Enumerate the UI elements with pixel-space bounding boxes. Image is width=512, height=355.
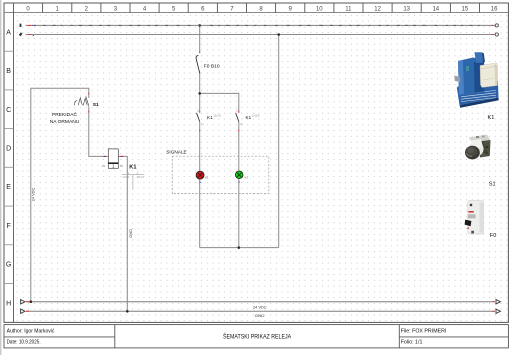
svg-text:File: FOX PRIMERI: File: FOX PRIMERI: [401, 328, 447, 334]
svg-text:E: E: [6, 184, 11, 191]
svg-text:F0 B10: F0 B10: [204, 64, 220, 70]
svg-text:F: F: [6, 223, 10, 230]
svg-text:10: 10: [316, 6, 323, 12]
svg-text:12: 12: [374, 6, 381, 12]
svg-text:S1: S1: [93, 102, 99, 108]
svg-text:Folio: 1/1: Folio: 1/1: [401, 340, 423, 346]
svg-text:15: 15: [462, 6, 469, 12]
svg-text:H1: H1: [205, 176, 209, 180]
svg-text:K1: K1: [129, 165, 136, 171]
svg-text:24 VDC: 24 VDC: [253, 304, 267, 309]
svg-text:ŠEMATSKI PRIKAZ RELEJA: ŠEMATSKI PRIKAZ RELEJA: [223, 333, 291, 340]
svg-text:16: 16: [491, 6, 498, 12]
svg-text:14: 14: [126, 175, 130, 179]
svg-text:S1: S1: [489, 181, 496, 187]
svg-text:D: D: [6, 146, 11, 153]
svg-text:C: C: [6, 107, 11, 114]
svg-text:H2: H2: [244, 175, 248, 179]
svg-text:G: G: [6, 262, 11, 269]
svg-text:GND: GND: [255, 313, 265, 318]
svg-text:A: A: [6, 29, 11, 36]
svg-text:Date: 10.9.2025.: Date: 10.9.2025.: [7, 340, 41, 346]
svg-text:11: 11: [345, 6, 352, 12]
svg-text:14: 14: [432, 6, 439, 12]
svg-text:K1: K1: [207, 115, 213, 120]
svg-text:NA ORMANU: NA ORMANU: [50, 119, 80, 125]
svg-text:PREKIDAČ: PREKIDAČ: [52, 111, 77, 118]
svg-text:B: B: [6, 68, 11, 75]
svg-text:(14): (14): [216, 114, 221, 117]
svg-text:24 VDC: 24 VDC: [31, 187, 36, 201]
svg-text:K1: K1: [488, 115, 495, 121]
svg-text:A1: A1: [102, 164, 106, 168]
svg-text:13: 13: [403, 6, 410, 12]
svg-text:GND: GND: [128, 229, 133, 238]
svg-text:SIGNALE: SIGNALE: [166, 150, 187, 156]
svg-text:A2: A2: [120, 164, 124, 168]
svg-text:H: H: [6, 300, 11, 307]
svg-text:F0: F0: [490, 233, 497, 239]
svg-text:Author: Igor Marković: Author: Igor Marković: [7, 329, 55, 335]
svg-text:(24): (24): [255, 114, 260, 117]
svg-text:K1: K1: [246, 115, 252, 120]
svg-text:24: 24: [140, 175, 144, 179]
